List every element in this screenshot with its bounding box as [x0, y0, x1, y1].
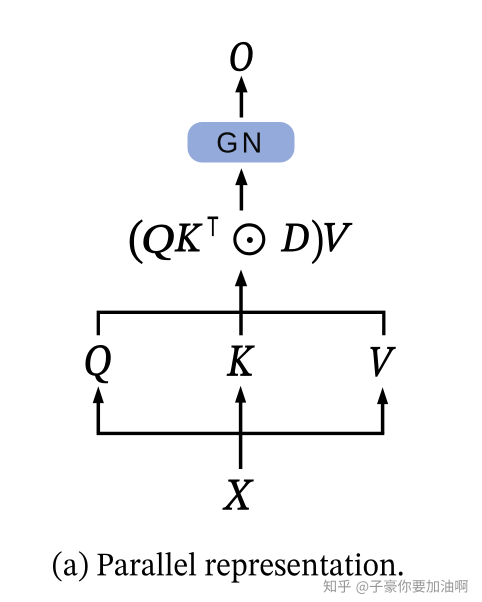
node O (output) — [231, 42, 253, 71]
top bracket wire — [98, 312, 384, 335]
node K — [227, 346, 254, 376]
node V — [371, 347, 396, 376]
arrow to V — [377, 387, 388, 433]
arrow formula to GN — [235, 168, 247, 210]
node Q — [86, 345, 111, 383]
V in formula — [325, 223, 352, 251]
arrow bracket to formula — [235, 270, 247, 336]
transpose T superscript — [208, 217, 218, 236]
svg-text:GN: GN — [216, 128, 265, 160]
Q in formula — [144, 225, 174, 260]
caption — [53, 551, 403, 582]
lower bracket wire — [97, 432, 385, 435]
formula (QK^T Hadamard D)V — [130, 217, 352, 264]
node X (input) — [223, 480, 254, 510]
K in formula — [175, 224, 202, 251]
right paren — [312, 220, 322, 264]
GN box (GroupNorm) — [188, 122, 295, 163]
arrow to K — [235, 386, 246, 469]
GN label — [216, 128, 265, 160]
D matrix — [281, 224, 308, 251]
arrow GN to O — [235, 76, 247, 118]
left paren — [130, 220, 142, 264]
Hadamard product symbol — [235, 225, 264, 254]
arrow to Q — [93, 386, 104, 433]
watermark zhihu — [323, 579, 469, 595]
